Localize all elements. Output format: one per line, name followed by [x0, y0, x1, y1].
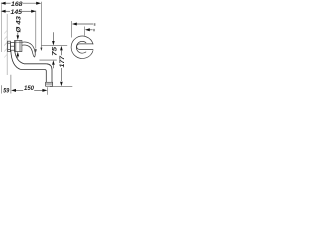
extension line E2 y86.6 [50, 86, 72, 88]
body [15, 41, 22, 52]
svg-text:Ø 43: Ø 43 [15, 16, 22, 33]
tiny cut labels right edge [94, 23, 96, 26]
svg-text:145: 145 [11, 9, 23, 16]
svg-text:168: 168 [11, 1, 23, 8]
C view inner arc [76, 41, 86, 53]
spout tube [24, 63, 46, 65]
extension line left x1.5 [0, 2, 2, 52]
dim 177: top arrow [60, 46, 63, 51]
small dim lower right: ext line + arrow [84, 27, 86, 36]
extension line E1 y45.6 [41, 45, 67, 47]
dim 75: bottom tick + arrow [39, 59, 56, 61]
handle [22, 42, 35, 57]
svg-text:59: 59 [3, 88, 9, 95]
dim 59/150 bottom [10, 75, 12, 94]
dim 75: top arrow [52, 32, 54, 41]
labels [3, 1, 66, 95]
dim 177: bottom arrow [60, 68, 62, 81]
small dim upper right: ext line + arrow [71, 21, 73, 38]
extension line x35.8 (145) [35, 11, 37, 49]
spout bend [46, 64, 52, 83]
dia43 top arrow [17, 33, 20, 40]
escutcheon [8, 41, 11, 51]
C view slot [77, 44, 94, 50]
spout neck curves [15, 50, 24, 64]
extension line x41.4 (168) [40, 2, 42, 46]
dia43 bottom arrow [17, 52, 20, 58]
C view outer circle [71, 36, 93, 58]
outlet piece [46, 82, 53, 86]
wall hatching [4, 31, 7, 58]
dim 168 line [1, 2, 42, 5]
union piece [10, 43, 14, 51]
dim 145 line [1, 10, 37, 13]
svg-text:75: 75 [51, 46, 58, 56]
wall line [6, 14, 8, 75]
svg-text:177: 177 [59, 56, 66, 68]
svg-text:150: 150 [24, 85, 34, 92]
